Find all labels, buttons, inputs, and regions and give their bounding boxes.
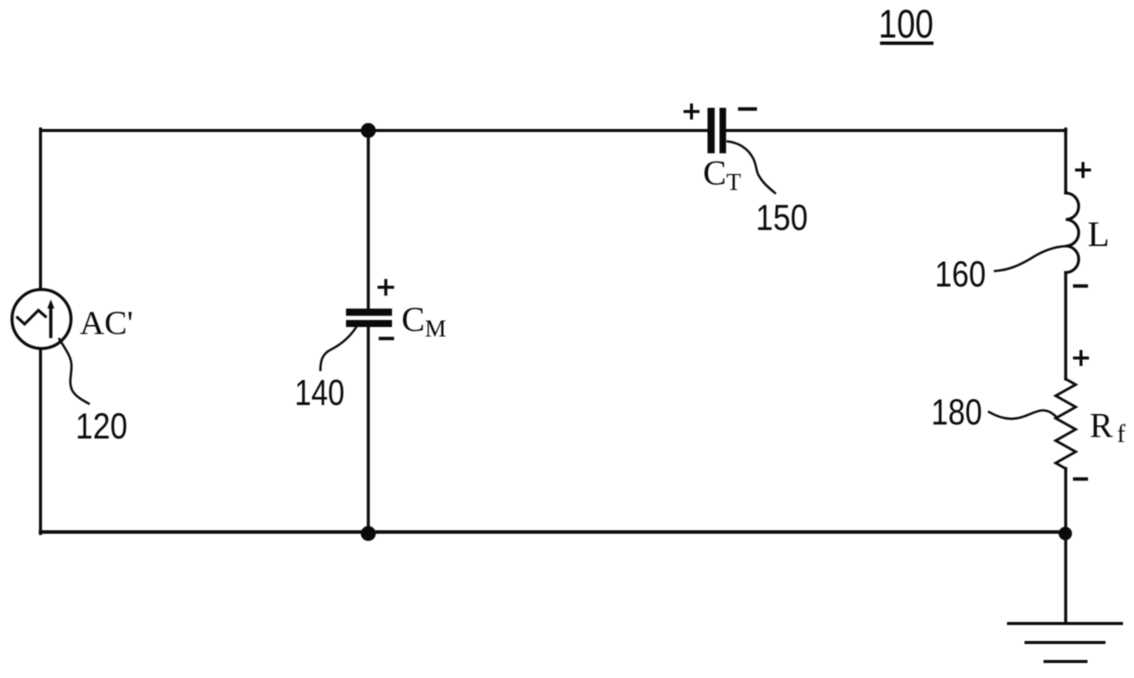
svg-text:120: 120 bbox=[76, 405, 128, 446]
ground symbol bar 3 bbox=[1045, 660, 1086, 663]
AC source arrow head bbox=[47, 299, 54, 308]
svg-text:160: 160 bbox=[935, 253, 986, 294]
junction dot top node bbox=[361, 123, 376, 138]
CM minus sign bbox=[379, 337, 394, 340]
CT minus sign bbox=[738, 107, 757, 110]
wire right vertical middle (L to Rf) bbox=[1064, 273, 1067, 380]
wire bottom horizontal (ground net) bbox=[41, 530, 1066, 534]
resistor Rf zigzag bbox=[1056, 379, 1076, 469]
svg-text:180: 180 bbox=[931, 391, 982, 432]
capacitor CT left plate bbox=[708, 108, 715, 154]
leader squiggle to 140 bbox=[320, 328, 356, 371]
junction dot bottom-middle node bbox=[361, 526, 376, 541]
AC source U1 circle bbox=[12, 290, 71, 349]
ground symbol bar 1 bbox=[1009, 622, 1122, 625]
wire top-right horizontal (CT to L) bbox=[726, 129, 1066, 132]
Rf plus sign bbox=[1073, 350, 1089, 366]
svg-text:L: L bbox=[1088, 214, 1110, 254]
AC source waveform zigzag bbox=[18, 310, 46, 324]
AC source arrow shaft bbox=[49, 306, 52, 337]
figure number 100 underline bbox=[880, 42, 934, 45]
capacitor CT right plate bbox=[720, 108, 727, 154]
Rf minus sign bbox=[1073, 477, 1088, 480]
leader squiggle to 160 bbox=[995, 246, 1066, 271]
L plus sign bbox=[1075, 162, 1091, 178]
ground symbol bar 2 bbox=[1026, 641, 1104, 644]
svg-text:AC': AC' bbox=[80, 305, 133, 342]
inductor L coil bbox=[1066, 193, 1079, 273]
wire left vertical upper (AC+ to top) bbox=[39, 129, 42, 290]
wire right vertical lower (Rf to ground node) bbox=[1064, 469, 1067, 623]
leader squiggle to 120 bbox=[59, 339, 88, 404]
wire left vertical lower (AC- to bottom) bbox=[39, 348, 42, 534]
leader squiggle to 150 bbox=[728, 141, 775, 193]
svg-text:100: 100 bbox=[879, 3, 934, 47]
wire top-left horizontal (node between source and CT) bbox=[41, 129, 708, 132]
capacitor CM top plate bbox=[346, 309, 392, 316]
svg-text:140: 140 bbox=[295, 372, 345, 413]
CM plus sign bbox=[378, 279, 395, 296]
junction dot bottom-right node bbox=[1059, 527, 1072, 540]
svg-text:150: 150 bbox=[756, 197, 808, 238]
wire middle vertical upper (top node to CM) bbox=[367, 131, 370, 310]
L minus sign bbox=[1073, 284, 1088, 287]
CT plus sign bbox=[684, 104, 700, 120]
wire middle vertical lower (CM to bottom node) bbox=[367, 327, 370, 534]
capacitor CM bottom plate bbox=[346, 320, 392, 327]
leader squiggle to 180 bbox=[989, 410, 1057, 418]
wire right vertical upper (top to L) bbox=[1064, 129, 1067, 193]
